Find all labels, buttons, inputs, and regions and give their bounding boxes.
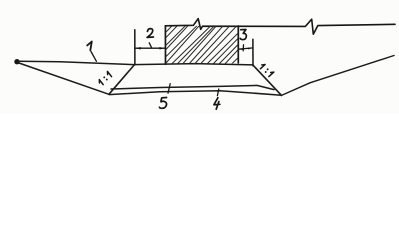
dimension 2 leader tick <box>149 43 151 48</box>
label 4 leader tick <box>217 89 218 96</box>
label 5 leader tick <box>168 84 170 94</box>
label 1 leader <box>91 52 96 62</box>
label 2 <box>147 29 153 38</box>
hatched block right edge <box>237 26 239 63</box>
label 5 <box>159 98 166 109</box>
left natural slope line from dot to bottom-left vertex <box>18 63 109 95</box>
dimension 2 extension line <box>134 30 136 65</box>
hatched block left edge <box>164 26 166 65</box>
hatching of block <box>122 17 284 65</box>
label 1:1 on left slope <box>98 71 113 85</box>
dimension 3 leader tick <box>242 45 244 51</box>
dimension 2 line <box>135 47 165 49</box>
label 1:1 on right slope <box>259 63 274 77</box>
bottom lower line (layer 4) <box>109 91 281 96</box>
top formation line with two break symbols <box>165 19 395 35</box>
label 4 <box>214 98 220 110</box>
bottom upper line (layer 5) <box>111 85 274 89</box>
dimension 2 arrowheads <box>135 47 141 50</box>
dimension 3 line <box>238 48 252 49</box>
label 3 <box>240 30 246 40</box>
dimension 3 arrowheads <box>239 48 244 50</box>
node: survey point dot <box>14 59 19 64</box>
label 1 <box>87 42 92 51</box>
right trough slope 1:1 <box>253 65 282 95</box>
right natural ground diagonal rising to top right <box>282 56 395 96</box>
left trough slope 1:1 <box>109 65 135 95</box>
dimension 3 extension line <box>252 39 254 66</box>
ground line (natural ground surface from dot to right trough edge) <box>18 61 253 65</box>
